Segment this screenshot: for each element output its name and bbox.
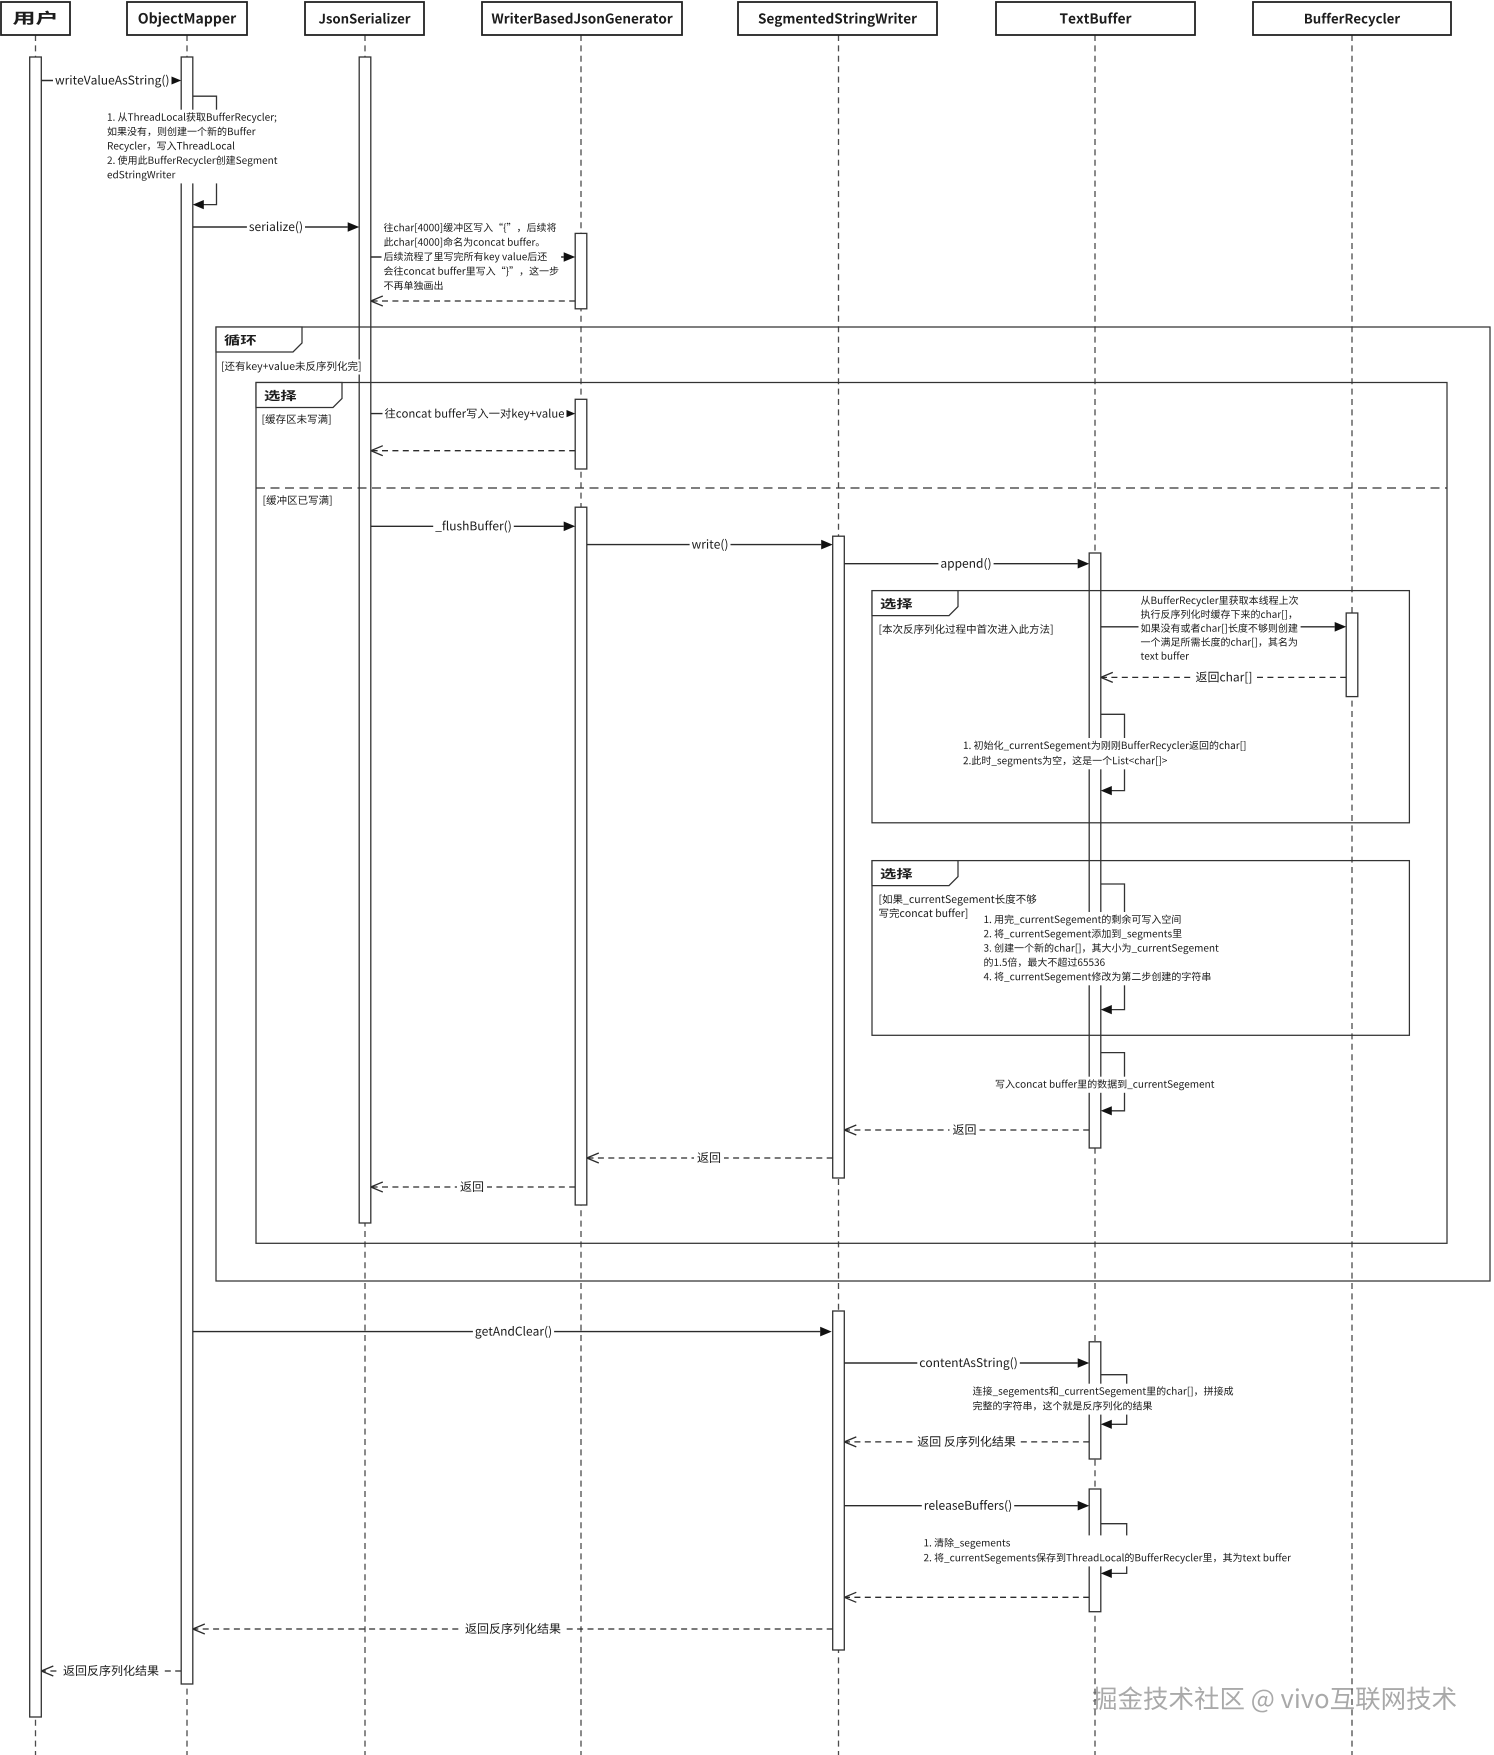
note concat buffer background xyxy=(382,220,562,294)
activation SegmentedStringWriter write xyxy=(833,536,845,1178)
note grow segments L2 xyxy=(984,929,1182,940)
activation ObjectMapper 57-1684 xyxy=(181,57,193,1684)
self-call TextBuffer grow segments xyxy=(1101,884,1125,1010)
guard segment too small L2 xyxy=(877,906,971,921)
return return result to ObjectMapper xyxy=(193,1628,833,1630)
message releaseBuffers() xyxy=(844,1505,1077,1507)
note get char[] from recycler L2 xyxy=(1141,609,1291,619)
lifeline 用户 (dashed) xyxy=(35,35,37,1755)
note clear segments L2 xyxy=(924,1553,1291,1564)
label return result to OM xyxy=(462,1620,564,1639)
note concat buffer L1 xyxy=(384,223,556,233)
note ObjectMapper setup L1 xyxy=(108,112,276,123)
activation User 57-1717 xyxy=(30,57,42,1717)
return return to WriterBasedJsonGenerator xyxy=(587,1157,833,1159)
alt divider dashed xyxy=(256,487,1447,489)
activation TextBuffer append xyxy=(1089,553,1101,1148)
return return to SegmentedStringWriter xyxy=(844,1129,1089,1131)
note write concat data background xyxy=(993,1077,1216,1093)
alt frame 选择 (first entry) xyxy=(872,591,1409,823)
note grow segments L4 xyxy=(984,957,1104,967)
label releaseBuffers() xyxy=(922,1498,1014,1515)
guard segment too small L1 xyxy=(877,892,1039,907)
lifeline TextBuffer (dashed) xyxy=(1094,35,1096,1755)
label return char[] xyxy=(1193,669,1256,688)
return return to JsonSerializer xyxy=(371,1186,575,1188)
note concat segments background xyxy=(971,1384,1236,1415)
activation JsonSerializer 57-1223 xyxy=(359,57,371,1223)
label return result xyxy=(914,1433,1019,1452)
lifeline WriterBasedJsonGenerator (dashed) xyxy=(580,35,582,1755)
label return 1 xyxy=(950,1121,980,1140)
message getAndClear() xyxy=(193,1331,820,1333)
label writeValueAsString() xyxy=(53,73,172,90)
note get char[] from recycler L4 xyxy=(1141,637,1297,647)
note get char[] from recycler L3 xyxy=(1141,623,1298,633)
participant TextBuffer xyxy=(996,2,1195,35)
message write { to concat buffer (note arrow) xyxy=(371,256,564,258)
loop frame 循环 xyxy=(216,327,1490,1281)
note concat segments L1 xyxy=(973,1386,1233,1397)
note init currentSegement L2 xyxy=(963,756,1167,767)
self-call TextBuffer clear/save xyxy=(1101,1524,1127,1574)
note get char[] from recycler L5 xyxy=(1141,652,1189,660)
self-call TextBuffer concat segments xyxy=(1101,1375,1127,1425)
message write() xyxy=(587,544,821,546)
guard first entry xyxy=(877,622,1056,637)
note ObjectMapper setup L2 xyxy=(107,127,255,137)
participant BufferRecycler xyxy=(1253,2,1451,35)
message _flushBuffer() xyxy=(371,525,564,527)
note grow segments background xyxy=(982,912,1221,985)
self-call TextBuffer init _currentSegement xyxy=(1101,714,1125,790)
message serialize() xyxy=(193,226,348,228)
self-call ObjectMapper setup note xyxy=(193,96,217,204)
participant SegmentedStringWriter xyxy=(738,2,937,35)
return return result to user xyxy=(41,1670,181,1672)
activation SegmentedStringWriter getAndClear xyxy=(833,1311,845,1650)
label _flushBuffer() xyxy=(433,519,514,536)
alt frame 选择 (segment too small) xyxy=(872,861,1409,1036)
activation WriterBasedJsonGenerator _flushBuffer xyxy=(575,507,587,1205)
note concat buffer L3 xyxy=(384,252,547,263)
message append() xyxy=(844,563,1077,565)
activation BufferRecycler xyxy=(1346,613,1358,697)
watermark 掘金技术社区 @ vivo互联网技术 xyxy=(1094,1688,1457,1714)
participant 用户 xyxy=(1,2,70,35)
lifeline JsonSerializer (dashed) xyxy=(364,35,366,1755)
return return after writing { xyxy=(371,300,575,302)
guard full xyxy=(261,493,335,508)
lifeline BufferRecycler (dashed) xyxy=(1351,35,1353,1755)
note get char[] from recycler L1 xyxy=(1141,596,1298,607)
label serialize() xyxy=(247,219,305,236)
return return after key+value xyxy=(371,450,575,452)
note grow segments L5 xyxy=(984,972,1211,983)
alt frame 选择 (buffer full?) xyxy=(256,383,1447,1244)
lifeline SegmentedStringWriter (dashed) xyxy=(838,35,840,1755)
label write() xyxy=(690,537,731,554)
label append() xyxy=(938,556,993,573)
note init currentSegement background xyxy=(961,738,1248,769)
label getAndClear() xyxy=(473,1324,554,1341)
label write key+value xyxy=(383,406,567,422)
participant WriterBasedJsonGenerator xyxy=(482,2,682,35)
note init currentSegement L1 xyxy=(964,741,1245,752)
note ObjectMapper setup L5 xyxy=(108,170,176,180)
note ObjectMapper setup background xyxy=(105,110,280,184)
note get char[] from recycler background xyxy=(1139,593,1301,665)
label return 2 xyxy=(694,1149,724,1168)
self-call TextBuffer write concat data xyxy=(1101,1053,1125,1111)
guard loop xyxy=(219,359,364,374)
note ObjectMapper setup L4 xyxy=(107,155,277,166)
participant ObjectMapper xyxy=(127,2,247,35)
note ObjectMapper setup L3 xyxy=(108,141,234,152)
note grow segments L1 xyxy=(984,915,1180,926)
note concat buffer L2 xyxy=(384,237,539,247)
return return serialization result xyxy=(844,1441,1089,1443)
guard not full xyxy=(260,412,334,427)
note concat segments L2 xyxy=(973,1401,1152,1411)
activation TextBuffer releaseBuffers xyxy=(1089,1489,1101,1612)
activation WriterBasedJsonGenerator key+value xyxy=(575,399,587,469)
activation TextBuffer contentAsString xyxy=(1089,1342,1101,1459)
message writeValueAsString() xyxy=(41,80,169,82)
return return after releaseBuffers xyxy=(844,1596,1089,1598)
note grow segments L3 xyxy=(984,943,1219,954)
note write concat data L1 xyxy=(996,1079,1215,1090)
message contentAsString() xyxy=(844,1362,1077,1364)
label return 3 xyxy=(457,1178,487,1197)
note clear segments background xyxy=(922,1535,1294,1566)
lifeline ObjectMapper (dashed) xyxy=(186,35,188,1755)
note concat buffer L4 xyxy=(384,266,558,276)
message get char[] from BufferRecycler xyxy=(1101,626,1335,628)
note clear segments L1 xyxy=(924,1538,1010,1549)
participant JsonSerializer xyxy=(305,2,424,35)
return return char[] xyxy=(1101,676,1346,678)
note concat buffer L5 xyxy=(384,281,443,290)
label return result to user xyxy=(60,1662,162,1681)
message write key+value pair xyxy=(371,413,564,415)
label contentAsString() xyxy=(917,1355,1020,1372)
activation WriterBasedJsonGenerator note-msg xyxy=(575,233,587,308)
